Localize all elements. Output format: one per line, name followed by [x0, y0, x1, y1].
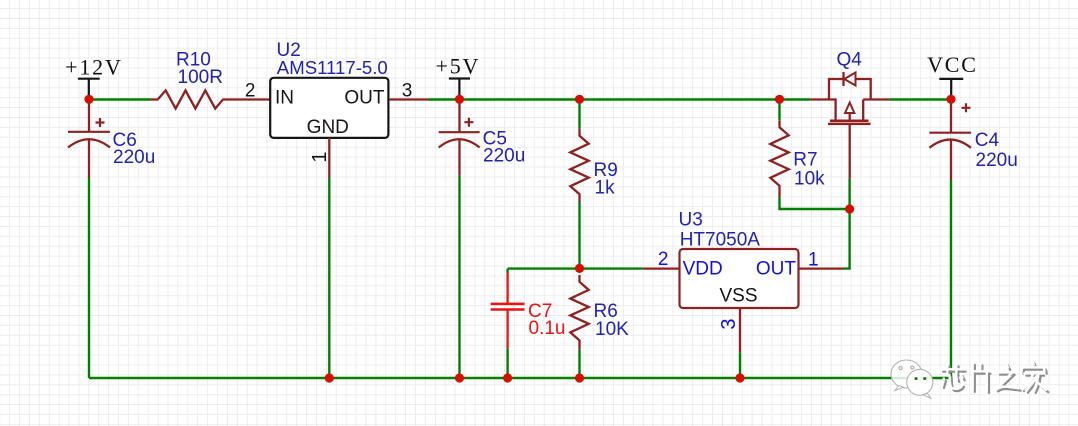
junction R7 top — [775, 95, 784, 104]
watermark logo bubbles — [891, 360, 933, 398]
U3 pin 1 (OUT) wire — [799, 250, 844, 271]
svg-text:100R: 100R — [178, 67, 223, 88]
wire R9 bottom to node A — [578, 202, 580, 269]
resistor R10 — [151, 50, 271, 109]
wire ground rail — [89, 377, 951, 379]
watermark text 芯片之家 — [941, 361, 1048, 393]
wire C7 bottom to ground rail — [506, 348, 508, 378]
junction ground C5 — [455, 373, 464, 382]
svg-text:VSS: VSS — [719, 286, 757, 307]
svg-text:1k: 1k — [595, 178, 616, 199]
svg-text:OUT: OUT — [344, 87, 385, 108]
wire Q4 drain to VCC node — [889, 98, 951, 100]
wire R7 bottom to gate node — [780, 197, 850, 209]
wire C7 top stub — [506, 269, 508, 273]
U2 pin 1 (GND) wire — [309, 138, 331, 178]
svg-text:1: 1 — [808, 250, 819, 271]
junction ground U3 — [735, 373, 744, 382]
junction gate node — [845, 204, 854, 213]
wire C5 to ground rail — [458, 175, 460, 378]
wire R6 bottom to ground rail — [578, 350, 580, 378]
wire +12V node to R10 — [89, 98, 151, 100]
wire C6 to ground rail — [88, 178, 90, 379]
power symbol VCC — [927, 52, 978, 95]
svg-text:0.1u: 0.1u — [529, 318, 566, 339]
junction R9 top — [575, 95, 584, 104]
svg-text:220u: 220u — [976, 150, 1018, 171]
svg-text:AMS1117-5.0: AMS1117-5.0 — [277, 57, 388, 78]
svg-text:VCC: VCC — [927, 52, 978, 77]
wire U3 VSS to ground rail — [739, 352, 741, 378]
junction +12V node — [84, 95, 93, 104]
U2 pin 3 (OUT) wire — [389, 81, 428, 102]
capacitor C6 — [68, 100, 155, 178]
svg-text:+12V: +12V — [65, 55, 123, 80]
svg-text:+5V: +5V — [436, 54, 481, 79]
svg-text:GND: GND — [307, 117, 349, 138]
svg-text:2: 2 — [658, 249, 669, 270]
junction +5V node — [455, 95, 464, 104]
capacitor C5 — [439, 100, 526, 176]
svg-text:3: 3 — [402, 81, 413, 102]
junction ground C7 — [503, 373, 512, 382]
capacitor C7 (highlighted red) — [491, 273, 566, 349]
resistor R6 — [570, 275, 629, 350]
wire gate node up to Q4 gate — [848, 179, 850, 209]
svg-text:C4: C4 — [975, 130, 1000, 151]
resistor R9 — [570, 129, 617, 202]
svg-text:IN: IN — [275, 87, 294, 108]
U3 pin 2 (VDD) wire — [643, 249, 680, 270]
svg-text:220u: 220u — [113, 147, 155, 168]
capacitor C4 — [929, 100, 1017, 181]
svg-text:3: 3 — [718, 318, 740, 329]
svg-text:HT7050A: HT7050A — [680, 230, 761, 251]
svg-text:2: 2 — [245, 81, 256, 102]
svg-text:U3: U3 — [679, 210, 703, 231]
svg-text:Q4: Q4 — [837, 50, 863, 71]
junction node A — [575, 264, 584, 273]
svg-text:220u: 220u — [483, 146, 525, 167]
junction VCC node — [946, 95, 955, 104]
svg-text:1: 1 — [309, 151, 331, 162]
svg-text:OUT: OUT — [756, 259, 797, 280]
wire R9 top stub — [578, 100, 580, 129]
junction ground R6 — [575, 373, 584, 382]
U3 pin 3 (VSS) wire — [718, 308, 740, 352]
wire +5V rail (U2 OUT to Q4 source) — [428, 98, 811, 100]
wire C4 to ground rail — [950, 180, 952, 378]
wire U2 GND to ground rail — [328, 178, 330, 379]
regulator U3 HT7050A — [679, 210, 799, 308]
svg-text:10K: 10K — [595, 319, 629, 340]
wire U3 OUT up to gate node — [843, 209, 850, 269]
svg-text:10k: 10k — [794, 168, 825, 189]
power symbol +5V — [436, 54, 481, 96]
power symbol +12V — [65, 55, 123, 96]
resistor R7 — [770, 120, 825, 197]
wire R7 top stub — [778, 100, 780, 121]
wire node A to U3 VDD — [508, 267, 643, 269]
svg-text:VDD: VDD — [683, 259, 723, 280]
regulator U2 AMS1117-5.0 — [270, 40, 388, 138]
transistor Q4 (P-MOSFET) — [811, 50, 890, 179]
junction ground U2 — [325, 373, 334, 382]
